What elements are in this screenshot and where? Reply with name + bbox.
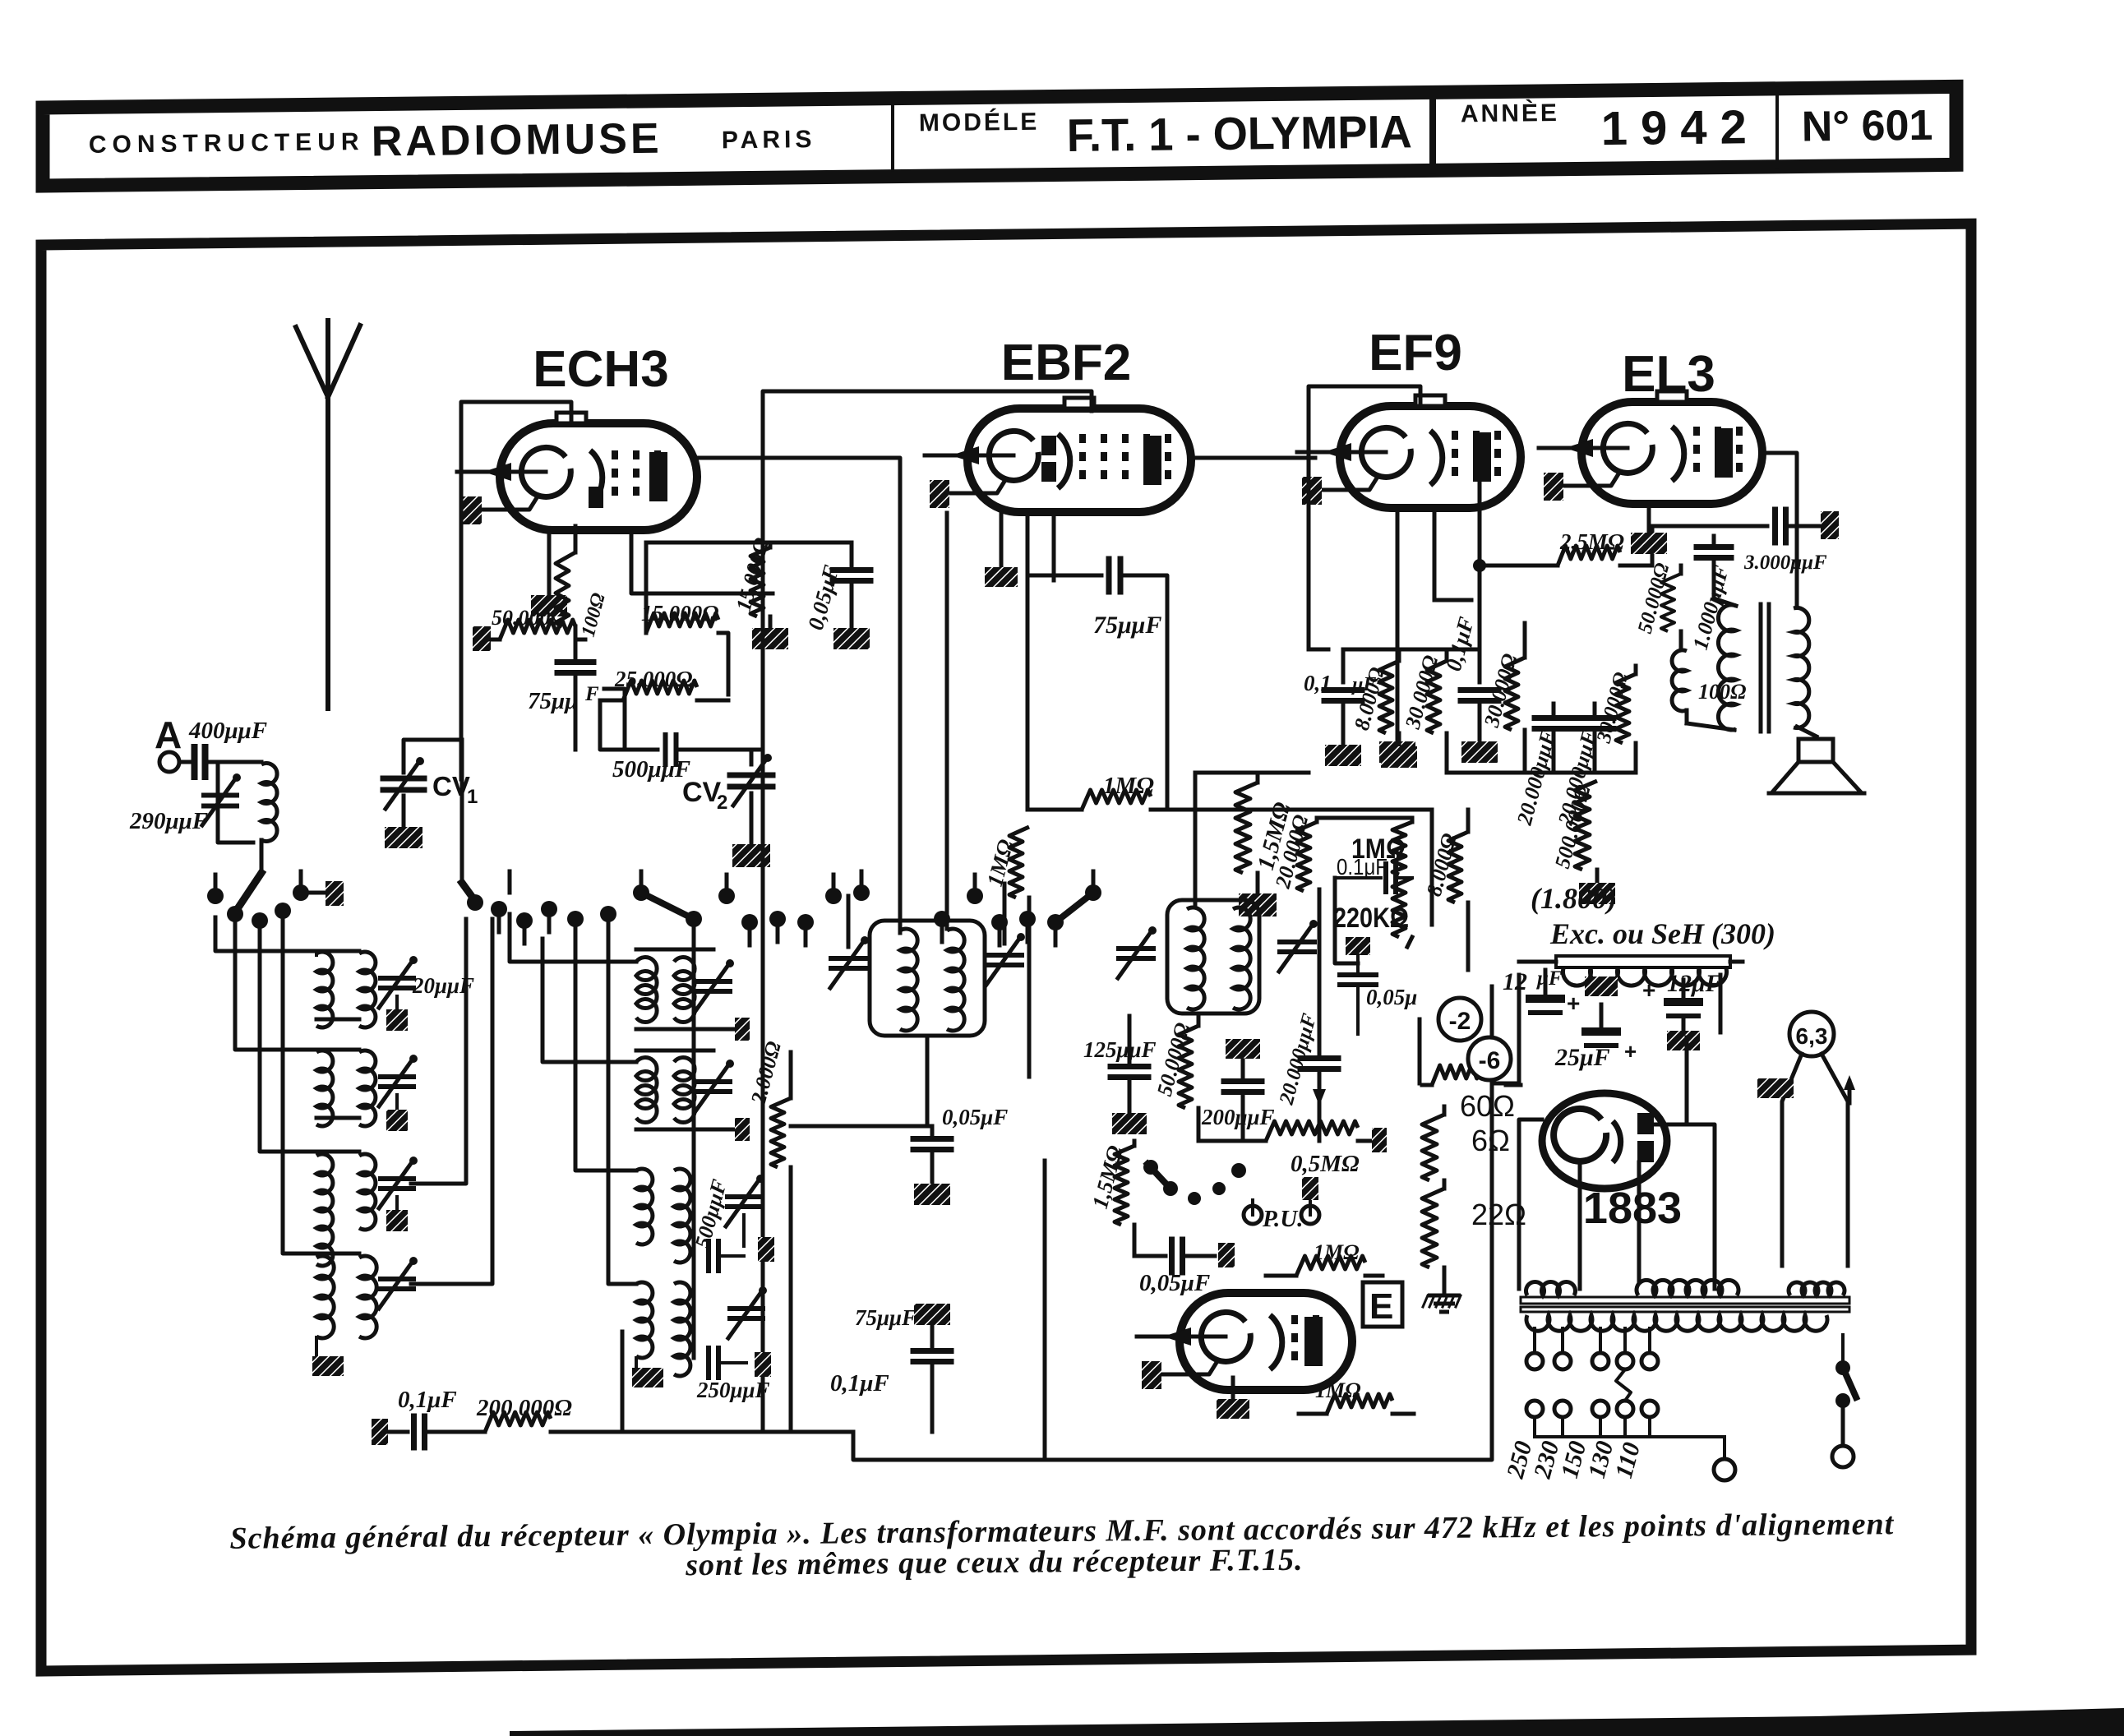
coil row M2 — [636, 1058, 657, 1123]
choke — [1563, 968, 1727, 986]
svg-text:μF: μF — [1535, 967, 1563, 990]
wire EBF2 long left — [761, 608, 765, 1432]
svg-text:(1.800): (1.800) — [1531, 882, 1617, 915]
label E — [1363, 1282, 1402, 1327]
svg-text:2.000Ω: 2.000Ω — [746, 1039, 786, 1108]
tube ECH3 — [500, 423, 697, 530]
svg-text:PARIS: PARIS — [722, 126, 816, 154]
coil row L4 — [316, 1256, 334, 1338]
coil row L2 — [316, 1050, 333, 1126]
svg-text:CONSTRUCTEUR: CONSTRUCTEUR — [89, 128, 365, 159]
svg-text:sont les mêmes que ceux du réc: sont les mêmes que ceux du récepteur F.T… — [685, 1543, 1304, 1583]
svg-text:290μμF: 290μμF — [129, 808, 208, 834]
switch stubs down — [233, 914, 238, 937]
capacitor 75uuF ebf2 — [1027, 574, 1101, 578]
resistor 30000 d — [1634, 666, 1638, 674]
svg-text:ECH3: ECH3 — [533, 341, 668, 398]
svg-text:P.U.: P.U. — [1262, 1206, 1303, 1232]
tube EBF2 — [967, 409, 1191, 512]
ground 0.05 ech3 — [833, 628, 870, 649]
header divider 1 — [891, 106, 894, 170]
svg-text:3.000μμF: 3.000μμF — [1743, 552, 1827, 574]
transformer primary — [1526, 1315, 1827, 1331]
capacitor 250uuF — [706, 1348, 711, 1378]
resistor 25000ohm — [623, 681, 697, 700]
tube EF9 — [1340, 406, 1521, 508]
PU switch — [1143, 1160, 1158, 1175]
svg-text:20.000μμF: 20.000μμF — [1512, 727, 1561, 828]
switch arm CV1 — [462, 883, 475, 901]
PU pad — [1302, 1177, 1318, 1200]
resistor 30000 a — [1445, 649, 1449, 661]
MF1 trimmer L — [831, 956, 866, 961]
wire avc loop — [1026, 575, 1030, 810]
svg-text:+: + — [1624, 1039, 1637, 1064]
mains switch — [1835, 1360, 1850, 1375]
capacitor 12uF L — [1544, 970, 1548, 993]
svg-text:0,05μF: 0,05μF — [1139, 1270, 1210, 1296]
wire EF9 plate — [1478, 477, 1482, 566]
mid bank grounds — [635, 1358, 638, 1366]
ground 3000uuF — [1821, 511, 1839, 539]
svg-text:25μF: 25μF — [1554, 1044, 1610, 1071]
wire EF9 box — [1309, 386, 1420, 649]
ground 500000 — [1579, 883, 1615, 904]
svg-text:12: 12 — [1503, 968, 1527, 995]
row L3 wires — [260, 942, 359, 1152]
capacitor 20000uuF a — [1535, 715, 1572, 721]
row L4 wires — [283, 932, 359, 1254]
wire ECH3 plate — [697, 458, 900, 933]
svg-text:0.1μF: 0.1μF — [1337, 854, 1388, 880]
svg-text:0,05μ: 0,05μ — [1366, 985, 1417, 1009]
wire EF9 k — [1396, 510, 1400, 740]
svg-text:0,05μF: 0,05μF — [803, 562, 844, 632]
capacitor 0.1uF det — [914, 1304, 950, 1325]
pot arrow — [1318, 1070, 1320, 1126]
capacitor 0.1uF bottom — [372, 1419, 388, 1445]
ground box — [1346, 937, 1370, 955]
wire ECH3 grid box — [461, 402, 571, 779]
E tube grounds — [1231, 1378, 1235, 1397]
wire screen bus ech3 — [773, 541, 852, 545]
row L1 wires — [215, 917, 359, 951]
svg-text:N° 601: N° 601 — [1801, 102, 1932, 151]
header box frame — [43, 86, 1956, 186]
tube EL3 — [1581, 402, 1762, 504]
PU terminals — [1244, 1206, 1262, 1224]
wire 1.5M top — [1195, 771, 1309, 775]
resistor 20000ohm box — [1315, 818, 1319, 822]
wire bank low bus — [1447, 771, 1636, 775]
osc grid vertical — [692, 927, 696, 1358]
svg-text:400μμF: 400μμF — [188, 718, 267, 744]
tube 1883 — [1542, 1093, 1667, 1189]
svg-text:0,05μF: 0,05μF — [942, 1105, 1008, 1129]
mid bank wires — [510, 914, 636, 962]
svg-text:50.000Ω: 50.000Ω — [492, 606, 566, 630]
schematic outer frame — [41, 224, 1971, 1671]
choke core — [1556, 956, 1730, 967]
switch stubs — [214, 875, 218, 896]
svg-text:0,1μF: 0,1μF — [830, 1370, 889, 1397]
resistor 1Mohm top — [1227, 1256, 1229, 1276]
svg-text:1MΩ: 1MΩ — [1103, 773, 1154, 799]
psu box wires — [1492, 975, 1519, 1083]
capacitor 200uuF — [1226, 1039, 1260, 1059]
svg-text:200μμF: 200μμF — [1201, 1105, 1275, 1129]
ground ECH3 k — [531, 595, 567, 616]
capacitor 0.05uF ech3 — [850, 542, 854, 566]
primary plugs — [1526, 1401, 1543, 1417]
tap jumper — [1616, 1369, 1631, 1401]
row M2 bottom — [636, 1128, 713, 1132]
MF2 box — [1167, 900, 1259, 1013]
svg-text:+: + — [1642, 977, 1655, 1003]
switch pad 1 — [326, 881, 344, 906]
resistor 200000 — [485, 1412, 551, 1432]
svg-text:1: 1 — [467, 786, 478, 808]
wire EBF2 box — [763, 391, 1092, 608]
svg-text:12μF: 12μF — [1667, 970, 1722, 997]
wire EL3 k — [1647, 506, 1651, 531]
svg-text:15.000Ω: 15.000Ω — [641, 601, 718, 626]
resistor 50000ohm — [473, 626, 491, 651]
ground 0.05 det — [914, 1184, 950, 1205]
wire EBF2 plate right — [1191, 456, 1315, 460]
ground L3 — [395, 1197, 399, 1210]
resistor 220Kohm — [1392, 878, 1412, 937]
transformer secondary 1 — [1526, 1281, 1576, 1295]
capacitor 0.1uF b — [1478, 623, 1482, 682]
ground 1.5Mohm — [1239, 893, 1277, 916]
switch arm 1 — [301, 891, 326, 895]
heater wires — [1782, 1054, 1802, 1266]
resistor 50000 el3 — [1679, 566, 1683, 574]
transformer secondary 3 — [1789, 1282, 1845, 1295]
ground L4 — [312, 1356, 344, 1376]
coil row M1 — [636, 958, 657, 1023]
svg-text:15.000Ω: 15.000Ω — [732, 535, 774, 613]
capacitor 1000uuF — [1697, 544, 1731, 550]
wave band switch contacts — [207, 888, 224, 904]
box 1M220K left — [1335, 878, 1358, 963]
wire EBF2 pins — [1000, 513, 1004, 567]
ground 0.1 b — [1461, 741, 1498, 763]
capacitor 25uF — [1585, 976, 1618, 996]
antenna tank box — [218, 762, 253, 843]
resistor 1Mohm v — [1028, 810, 1030, 827]
1883 internals — [1554, 1109, 1606, 1161]
wire OT secondary — [1794, 604, 1797, 608]
svg-text:250μμF: 250μμF — [696, 1378, 770, 1402]
capacitor 20000uuF b — [1576, 715, 1614, 721]
ground EBF2 pin — [985, 567, 1018, 587]
svg-text:1883: 1883 — [1583, 1184, 1682, 1233]
capacitor 500uuF m — [706, 1241, 711, 1271]
svg-text:200.000Ω: 200.000Ω — [476, 1395, 572, 1421]
resistor 1.5Mohm det — [1133, 1141, 1137, 1146]
bias box — [1466, 925, 1471, 970]
ground 15000ohm v — [752, 628, 788, 649]
svg-text:1MΩ: 1MΩ — [1315, 1378, 1361, 1402]
coil row L3 — [316, 1154, 333, 1266]
svg-text:EF9: EF9 — [1369, 325, 1462, 381]
svg-text:A: A — [155, 713, 182, 756]
coil 100ohm — [1672, 650, 1687, 711]
svg-text:2: 2 — [717, 792, 727, 814]
wire EL3 grid — [1543, 436, 1545, 460]
svg-text:1MΩ: 1MΩ — [1314, 1240, 1360, 1264]
terminal mains 2 — [1832, 1446, 1854, 1467]
MF1 box — [870, 921, 985, 1036]
coil row L1 — [316, 952, 333, 1027]
svg-text:8.000Ω: 8.000Ω — [1422, 831, 1461, 899]
ground CV1 — [385, 827, 422, 848]
wire det mid — [791, 1124, 932, 1129]
resistor 2.5Mohm — [1480, 564, 1558, 568]
svg-text:EL3: EL3 — [1622, 346, 1715, 403]
wire 100ohm node — [575, 749, 625, 750]
MF1 trimmer R — [987, 953, 1022, 958]
svg-text:0,5MΩ: 0,5MΩ — [1291, 1151, 1360, 1177]
header divider 3 — [1775, 89, 1779, 167]
resistor 8000 a — [1397, 649, 1401, 661]
wire CV1 top — [404, 740, 462, 773]
switch arm 3 — [641, 893, 694, 919]
ground CV2 — [732, 844, 770, 867]
ground EL3 k — [1631, 533, 1667, 554]
wire ECH3 pin k — [547, 533, 552, 593]
resistor 1Mohm h — [1027, 808, 1082, 812]
svg-text:0,1μF: 0,1μF — [398, 1387, 457, 1413]
ground 8000 a — [1381, 746, 1417, 768]
svg-text:RADIOMUSE: RADIOMUSE — [371, 115, 662, 166]
coil row M4 — [636, 1282, 653, 1358]
wire det bottom — [791, 1431, 853, 1433]
svg-text:-2: -2 — [1449, 1008, 1471, 1035]
scan smudge bottom right — [510, 1708, 2124, 1736]
capacitor 0.05uF det — [791, 1147, 932, 1148]
resistor 8000 b — [1466, 810, 1471, 832]
wire ech3 g2 — [631, 533, 773, 593]
terminal -2 — [1438, 998, 1481, 1041]
resistor 1.5Mohm — [1256, 773, 1260, 783]
svg-text:75μμF: 75μμF — [1093, 612, 1161, 639]
resistor 50000 det — [1197, 1016, 1201, 1026]
terminal A — [159, 752, 179, 772]
svg-text:2,5MΩ: 2,5MΩ — [1559, 529, 1624, 554]
row M1 bottom — [636, 1027, 713, 1032]
ground 0.1 a — [1325, 745, 1361, 766]
transformer secondary 2 — [1637, 1280, 1738, 1295]
svg-text:+: + — [1567, 990, 1580, 1016]
svg-text:60Ω: 60Ω — [1460, 1089, 1515, 1123]
capacitor 0.05uF af — [1134, 1254, 1166, 1258]
svg-text:F.T. 1 - OLYMPIA: F.T. 1 - OLYMPIA — [1066, 105, 1412, 161]
svg-text:Exc. ou SeH (300): Exc. ou SeH (300) — [1549, 917, 1775, 950]
capacitor 500uuF — [625, 748, 658, 752]
switch arm 2 — [301, 896, 345, 919]
row L2 wires — [235, 935, 359, 1050]
resistor 500000 — [1596, 773, 1598, 781]
ground L2 — [395, 1095, 399, 1110]
output transformer — [1718, 605, 1736, 730]
capacitor 0.05u box — [1340, 972, 1376, 977]
svg-text:0,1μF: 0,1μF — [1441, 614, 1479, 673]
capacitor 0.1uF a — [1341, 649, 1346, 682]
wire EL3 plate out — [1763, 453, 1797, 604]
MF2 coils — [1187, 907, 1204, 1009]
svg-text:ANNÈE: ANNÈE — [1461, 99, 1559, 127]
switch wire — [1841, 1335, 1845, 1368]
resistor 2000ohm — [789, 1052, 793, 1098]
wire osc grid — [604, 689, 625, 750]
resistor 60ohm — [1422, 1083, 1432, 1087]
svg-text:EBF2: EBF2 — [1001, 335, 1131, 391]
PU arm — [1147, 1164, 1171, 1189]
terminal mains 1 — [1714, 1459, 1735, 1480]
switch pad 2 — [861, 879, 862, 880]
switch arm 4 — [1055, 893, 1093, 922]
1883 wires — [1519, 1120, 1542, 1289]
capacitor 12uF R — [1682, 980, 1686, 996]
wire bias top — [1418, 1019, 1422, 1083]
wire bank bus — [1309, 648, 1328, 652]
wire 25000 left — [600, 700, 625, 750]
MF1 coils — [900, 929, 917, 1031]
primary bus — [1535, 1435, 1725, 1438]
feeder 567 — [411, 919, 466, 1184]
svg-text:220KΩ: 220KΩ — [1333, 903, 1409, 934]
trimmer CV1 — [383, 776, 424, 782]
svg-text:25.000Ω: 25.000Ω — [614, 667, 692, 691]
box 1M220K top — [1317, 816, 1412, 820]
svg-text:F: F — [584, 683, 599, 705]
potentiometer 0.5Mohm — [1266, 1121, 1358, 1141]
capacitor 20000uuF det — [1318, 889, 1322, 1054]
ground EF9 k — [1379, 741, 1415, 763]
antenna — [296, 327, 328, 709]
antenna coil L1 — [261, 764, 277, 842]
capacitor 75uuF ech3 — [574, 649, 578, 658]
resistor 1Mohm box — [1411, 818, 1415, 822]
svg-text:75μμF: 75μμF — [855, 1305, 917, 1330]
MF2 trimmer R — [1280, 940, 1314, 944]
wire bias left — [1490, 986, 1494, 1284]
svg-text:-6: -6 — [1479, 1047, 1501, 1074]
header divider 2 — [1429, 92, 1436, 170]
wire avc right — [1167, 809, 1332, 810]
coil row M3 — [636, 1169, 653, 1244]
trimmer CV2 — [751, 748, 763, 752]
trimmer 290uuF — [204, 793, 237, 798]
resistor 100ohm — [574, 526, 578, 552]
primary taps — [1533, 1328, 1536, 1353]
resistor 15000ohm h — [644, 593, 649, 633]
svg-text:CV: CV — [432, 771, 470, 801]
svg-text:0,1: 0,1 — [1304, 671, 1332, 695]
heater ground — [1757, 1078, 1794, 1098]
svg-text:1942: 1942 — [1600, 100, 1760, 155]
svg-text:30.000Ω: 30.000Ω — [1401, 653, 1443, 732]
resistor 6ohm — [1443, 1106, 1447, 1115]
terminal 6.3 — [1789, 1012, 1834, 1056]
switch arm antenna — [235, 873, 261, 912]
resistor 30000 b — [1523, 623, 1527, 658]
capacitor 3000uuF — [1652, 524, 1767, 529]
MF2 trimmer L — [1119, 946, 1153, 951]
speaker — [1798, 739, 1833, 762]
transformer core — [1521, 1297, 1849, 1304]
wire avc bus right — [1332, 808, 1432, 812]
svg-text:75μμ: 75μμ — [528, 688, 578, 714]
svg-text:MODÉLE: MODÉLE — [919, 108, 1040, 137]
bottom box — [853, 1284, 1492, 1460]
ground 22ohm — [1428, 1295, 1461, 1312]
capacitor 0.1uF box — [1335, 876, 1381, 880]
feeder 599 — [411, 919, 492, 1284]
heater arrow — [1848, 1082, 1852, 1103]
ground L1 — [395, 996, 399, 1009]
terminal -6 — [1468, 1037, 1511, 1080]
svg-text:E: E — [1369, 1286, 1393, 1327]
svg-text:125μμF: 125μμF — [1083, 1037, 1157, 1062]
capacitor 125uuF — [1128, 1016, 1132, 1062]
resistor 1Mohm bot — [1327, 1394, 1392, 1414]
tube E — [1180, 1293, 1352, 1390]
capacitor 400uuF — [179, 760, 191, 764]
svg-text:500μμF: 500μμF — [612, 756, 690, 783]
resistor 15000ohm v — [769, 542, 773, 547]
svg-text:100Ω: 100Ω — [578, 591, 610, 639]
wire bank bus2 — [1328, 649, 1343, 650]
svg-text:6,3: 6,3 — [1796, 1023, 1828, 1049]
wire EF9 g — [1433, 510, 1437, 600]
resistor 22ohm — [1422, 1189, 1444, 1267]
